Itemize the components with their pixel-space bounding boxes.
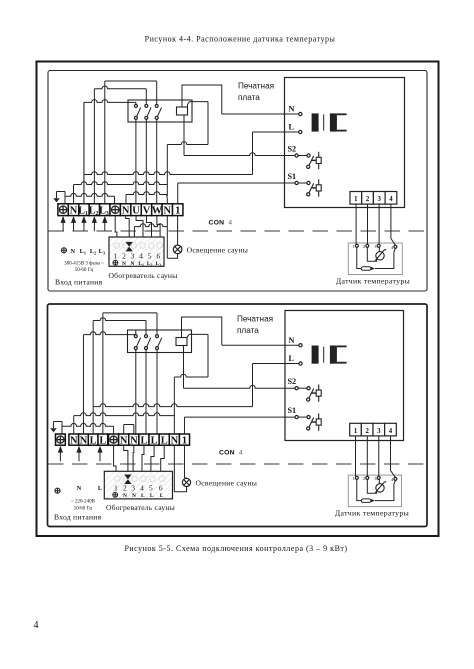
svg-text:L: L: [98, 485, 102, 492]
wires connector to sensor: [355, 204, 357, 244]
svg-text:2: 2: [363, 244, 365, 249]
svg-text:L: L: [150, 493, 154, 499]
svg-text:плата: плата: [238, 93, 260, 102]
svg-text:N: N: [123, 493, 127, 499]
main terminal strip X1: [58, 204, 68, 216]
PE link bus 2: [62, 423, 114, 426]
contactor contact 1: [134, 104, 137, 107]
svg-text:5: 5: [149, 483, 153, 492]
connector CON4 block 1-4: [350, 192, 362, 205]
svg-text:Датчик температуры: Датчик температуры: [336, 276, 411, 285]
svg-text:1: 1: [354, 428, 358, 435]
contactor contact 3: [155, 104, 158, 107]
svg-text:2: 2: [366, 196, 370, 203]
svg-text:N: N: [77, 485, 82, 492]
wire N loop to coil: [182, 85, 222, 114]
figure 5-5 border: [48, 304, 428, 527]
svg-text:1: 1: [353, 476, 355, 481]
thermistor RT: [376, 252, 384, 260]
svg-text:6: 6: [159, 483, 163, 492]
switch S2: [307, 154, 310, 157]
main terminal strip X2: [56, 434, 66, 445]
wire riser c: [103, 312, 157, 314]
wires strip to heater: [115, 216, 117, 237]
dashed boundary line 2: [48, 463, 427, 465]
svg-text:1: 1: [353, 244, 355, 249]
svg-text:L: L: [90, 435, 97, 446]
svg-text:N: N: [130, 435, 138, 446]
svg-text:N: N: [171, 435, 179, 446]
svg-text:Вход питания: Вход питания: [54, 512, 102, 521]
contactor K1 box: [128, 100, 192, 122]
svg-text:4: 4: [239, 450, 243, 457]
svg-text:Печатная: Печатная: [238, 82, 274, 91]
wire L into PCB: [253, 131, 299, 133]
svg-text:4: 4: [140, 483, 144, 492]
wire sensor t2 loop: [367, 247, 376, 261]
svg-text:Освещение сауны: Освещение сауны: [187, 245, 249, 254]
wire S2: [298, 155, 307, 157]
power input arrows 2: [58, 446, 63, 453]
wire riser a: [83, 332, 135, 335]
wire S1 link: [298, 182, 307, 184]
relay coil K1: [177, 107, 188, 115]
svg-text:3: 3: [377, 428, 381, 435]
svg-text:380-415В 3 фазы ~: 380-415В 3 фазы ~: [64, 261, 104, 266]
svg-text:L: L: [289, 123, 295, 132]
svg-text:1: 1: [182, 435, 187, 446]
svg-text:L: L: [151, 435, 158, 446]
wire N to lamp loop: [166, 216, 168, 259]
svg-text:~ 220-240В: ~ 220-240В: [71, 500, 96, 505]
svg-text:Освещение сауны: Освещение сауны: [196, 478, 258, 487]
wire sensor t3 to thermistor: [378, 247, 380, 251]
wire N to lamp loop 2: [173, 445, 175, 492]
svg-text:S1: S1: [288, 172, 297, 181]
contact output drops: [135, 119, 137, 203]
svg-text:Обогреватель сауны: Обогреватель сауны: [106, 503, 175, 512]
contactor 2 contact 1: [134, 335, 137, 338]
switch S1: [307, 181, 310, 184]
svg-text:3: 3: [131, 251, 135, 260]
N link bus (heater neutral): [126, 192, 167, 195]
dashed boundary line: [49, 230, 427, 232]
probe capsule: [361, 267, 371, 271]
wire L1 riser: [83, 175, 85, 204]
N link bus 2: [124, 424, 134, 426]
svg-text:L: L: [160, 493, 164, 499]
svg-text:CON: CON: [219, 450, 235, 457]
page outer frame: [37, 62, 439, 537]
lamp sauna light: [173, 245, 182, 254]
svg-text:Печатная: Печатная: [237, 315, 273, 324]
wire N into PCB: [222, 113, 299, 115]
figure 4-4 border: [48, 71, 427, 292]
svg-text:N: N: [131, 261, 135, 267]
contactor K2 box: [128, 330, 192, 353]
wire riser b: [93, 318, 146, 321]
svg-text:L: L: [99, 435, 106, 446]
svg-text:Датчик температуры: Датчик температуры: [335, 509, 410, 518]
input labels 2: [55, 488, 60, 493]
heater terminal labels 2: [113, 492, 118, 497]
transformer T2: [312, 346, 319, 364]
probe capsule 2: [361, 499, 371, 503]
svg-text:N: N: [122, 205, 130, 216]
svg-text:4: 4: [139, 251, 143, 260]
svg-text:W: W: [152, 205, 163, 216]
temperature sensor box 2: [348, 475, 401, 507]
wire probe to t4: [375, 248, 396, 268]
svg-text:1: 1: [175, 205, 180, 216]
wire sensor t1 to probe: [357, 247, 362, 268]
svg-text:1: 1: [354, 196, 358, 203]
svg-text:4: 4: [34, 620, 39, 631]
wire L3 riser: [105, 80, 157, 82]
contactor 2 contact 3: [156, 335, 159, 338]
contactor contact 2: [145, 104, 148, 107]
svg-text:Рисунок 4-4. Расположение датч: Рисунок 4-4. Расположение датчика темпер…: [145, 35, 336, 44]
wire N to heater terminal 3: [134, 224, 167, 227]
svg-text:N: N: [289, 105, 295, 114]
svg-text:L: L: [141, 493, 145, 499]
svg-text:L: L: [140, 435, 147, 446]
svg-text:Вход питания: Вход питания: [55, 277, 103, 286]
svg-text:N: N: [164, 205, 172, 216]
wire N5 riser branch 2: [173, 377, 175, 425]
earth symbol 2: [61, 422, 63, 435]
svg-text:3: 3: [374, 244, 376, 249]
wires strip to heater 2: [114, 445, 116, 471]
PCB board box U1: [285, 78, 405, 208]
wire S1 from terminal 1: [177, 183, 179, 204]
contact output drops 2: [135, 350, 137, 434]
svg-text:S2: S2: [288, 145, 297, 154]
lamp sauna light 2: [182, 478, 190, 486]
relay coil K2: [176, 338, 187, 346]
wire L drop: [252, 132, 254, 175]
svg-text:5: 5: [148, 251, 152, 260]
svg-text:4: 4: [389, 428, 393, 435]
contact entry stubs 2: [135, 330, 137, 335]
svg-text:2: 2: [365, 428, 369, 435]
bus L link 2: [93, 404, 252, 407]
svg-text:N: N: [70, 205, 78, 216]
thermistor RT 2: [376, 484, 384, 492]
svg-text:3: 3: [374, 476, 376, 481]
svg-text:L: L: [289, 354, 295, 363]
wire terminal 1 to lamp 2: [183, 445, 185, 478]
svg-text:2: 2: [363, 476, 365, 481]
transformer T1: [312, 113, 319, 131]
heater box: [109, 237, 164, 266]
svg-text:3: 3: [378, 196, 382, 203]
bus N power link: [74, 182, 168, 185]
switch S1 2: [307, 416, 310, 419]
svg-text:4: 4: [229, 220, 233, 227]
contactor 2 contact 2: [145, 335, 148, 338]
PCB board box U2: [285, 311, 404, 441]
svg-text:2: 2: [122, 251, 126, 260]
connector CON4 block 2: [350, 423, 362, 436]
svg-text:3: 3: [131, 483, 135, 492]
temperature sensor box: [348, 243, 402, 275]
svg-text:S1: S1: [288, 406, 297, 415]
svg-text:N: N: [120, 435, 128, 446]
wire L drop 2: [252, 364, 254, 407]
heater terminal labels: [113, 260, 118, 265]
input labels: [61, 248, 66, 253]
svg-text:N: N: [132, 493, 136, 499]
svg-text:N: N: [70, 248, 75, 255]
bus L link: [84, 172, 253, 175]
heater screw circles 2: [115, 476, 121, 482]
svg-text:CON: CON: [209, 220, 225, 227]
wire coil to S2: [183, 115, 185, 156]
svg-text:6: 6: [156, 251, 160, 260]
wire N3 riser to coil branch: [166, 145, 168, 197]
svg-text:N: N: [70, 435, 78, 446]
switch S2 2: [307, 387, 310, 390]
svg-text:N: N: [289, 336, 295, 345]
svg-text:L: L: [161, 435, 168, 446]
svg-text:Рисунок 5-5. Схема подключения: Рисунок 5-5. Схема подключения контролле…: [124, 544, 347, 553]
svg-text:Обогреватель сауны: Обогреватель сауны: [109, 271, 178, 280]
thermal cutout symbol: [126, 242, 133, 252]
power input arrows: [61, 216, 66, 223]
thermal cutout symbol 2: [124, 475, 131, 485]
svg-text:2: 2: [123, 483, 127, 492]
svg-text:V: V: [143, 205, 151, 216]
svg-text:1: 1: [114, 483, 118, 492]
svg-text:1: 1: [114, 251, 118, 260]
svg-text:плата: плата: [237, 326, 259, 335]
wires connector to sensor 2: [355, 436, 357, 477]
heater box 2: [104, 471, 172, 499]
wire coil to S2 2: [183, 346, 185, 389]
wire N loop to coil 2: [182, 317, 222, 345]
heater screw circles: [114, 243, 120, 249]
wire L2 riser: [94, 86, 146, 89]
svg-text:S2: S2: [288, 377, 297, 386]
bus N power link 2: [74, 413, 175, 416]
wire S1 from terminal 1 2: [183, 417, 185, 434]
svg-text:U: U: [132, 205, 140, 216]
svg-text:N: N: [122, 261, 126, 267]
earth symbol: [64, 192, 66, 204]
svg-text:50/60 Гц: 50/60 Гц: [74, 507, 93, 512]
svg-text:4: 4: [389, 196, 393, 203]
svg-text:N: N: [80, 435, 88, 446]
PE link bus: [65, 193, 115, 196]
svg-text:50-60 Гц: 50-60 Гц: [75, 268, 94, 273]
wire terminal 1 to lamp: [177, 216, 179, 245]
